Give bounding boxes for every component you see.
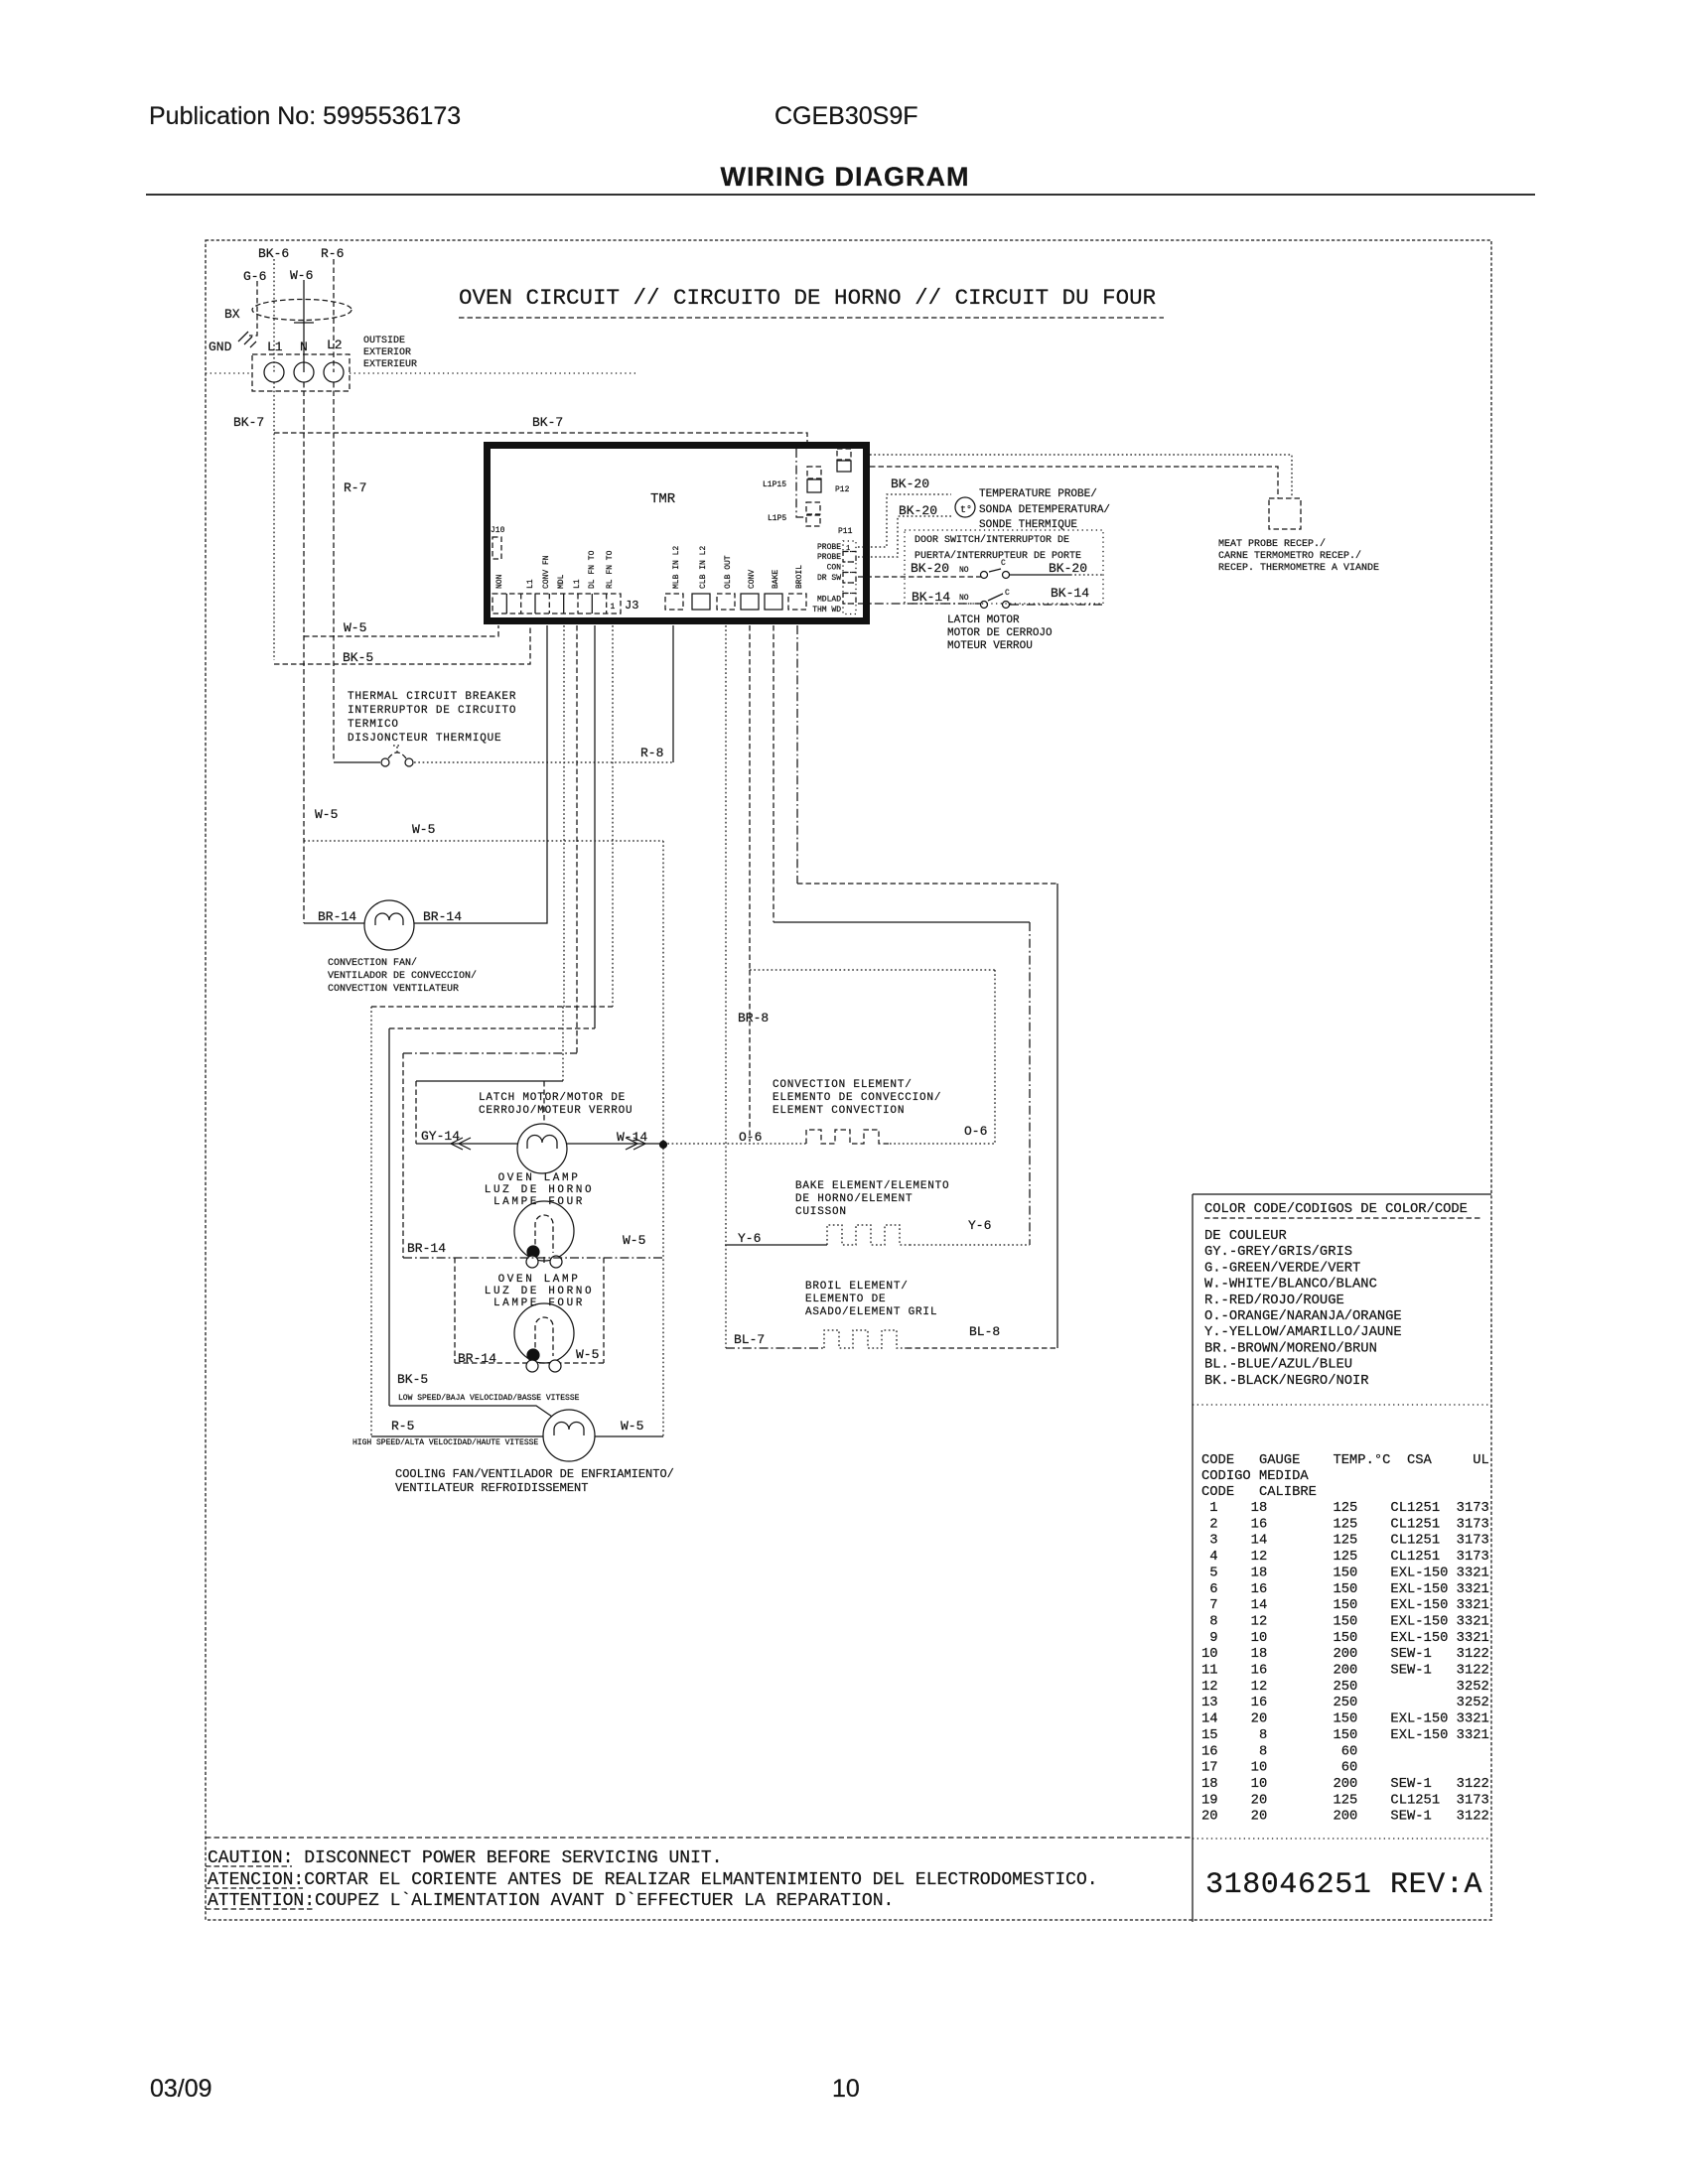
svg-text:BK-5: BK-5	[343, 650, 373, 665]
svg-text:4 12 125 CL1251: 4 12 125 CL1251 3173	[1201, 1550, 1489, 1565]
svg-text:ATTENTION:COUPEZ L`ALIMENTATIO: ATTENTION:COUPEZ L`ALIMENTATION AVANT D`…	[208, 1891, 894, 1911]
svg-text:BK-20: BK-20	[1049, 561, 1087, 576]
svg-text:THERMAL CIRCUIT BREAKER: THERMAL CIRCUIT BREAKER	[348, 691, 516, 703]
svg-text:N: N	[300, 340, 308, 354]
wire R-8 breaker to MLB	[414, 761, 673, 763]
svg-text:BK-7: BK-7	[532, 415, 563, 430]
wire x406 drop to oven lamp	[402, 1053, 404, 1258]
TMR control board box	[488, 446, 867, 621]
J3 divider 1	[505, 594, 507, 614]
convection fan motor	[364, 900, 414, 950]
wire P12 pin1 to meat probe recep	[870, 455, 1292, 498]
caution underlines	[206, 1866, 315, 1909]
svg-text:10 18 200 SEW-1: 10 18 200 SEW-1 3122	[1201, 1647, 1489, 1662]
svg-text:BAKE: BAKE	[772, 570, 780, 589]
svg-text:O-6: O-6	[964, 1124, 987, 1139]
svg-text:BR-8: BR-8	[738, 1011, 769, 1025]
J3 divider 3	[534, 594, 536, 614]
svg-text:COOLING FAN/VENTILADOR DE ENFR: COOLING FAN/VENTILADOR DE ENFRIAMIENTO/	[395, 1467, 674, 1481]
svg-text:OVEN CIRCUIT // CIRCUITO DE HO: OVEN CIRCUIT // CIRCUITO DE HORNO // CIR…	[459, 285, 1156, 311]
svg-text:BL-7: BL-7	[734, 1332, 765, 1347]
svg-text:ATENCION:CORTAR EL CORIENTE AN: ATENCION:CORTAR EL CORIENTE ANTES DE REA…	[208, 1870, 1098, 1890]
wire cooling fan right	[595, 1435, 663, 1437]
svg-text:THM WD: THM WD	[812, 606, 841, 614]
latch motor	[517, 1124, 567, 1173]
svg-text:Y.-YELLOW/AMARILLO/JAUNE: Y.-YELLOW/AMARILLO/JAUNE	[1204, 1324, 1402, 1340]
svg-text:CGEB30S9F: CGEB30S9F	[774, 102, 918, 130]
cable sheath BX ellipse	[252, 300, 352, 321]
svg-text:BL.-BLUE/AZUL/BLEU: BL.-BLUE/AZUL/BLEU	[1204, 1357, 1352, 1373]
wire pin x617 drop	[612, 625, 614, 1007]
oven lamp 1 terminal dot	[527, 1246, 539, 1258]
svg-text:SONDE THERMIQUE: SONDE THERMIQUE	[979, 519, 1077, 531]
J3 divider 8	[606, 594, 608, 614]
svg-text:RECEP. THERMOMETRE A VIANDE: RECEP. THERMOMETRE A VIANDE	[1218, 563, 1379, 574]
wire L1 BK down	[273, 382, 275, 660]
wire pin x599 drop	[594, 625, 596, 1028]
TMR connector BROIL	[788, 594, 806, 610]
svg-text:W-5: W-5	[621, 1419, 643, 1433]
oven lamp 1	[514, 1201, 574, 1261]
svg-text:MOTEUR VERROU: MOTEUR VERROU	[947, 640, 1033, 652]
svg-text:TERMICO: TERMICO	[348, 719, 399, 731]
svg-text:7 14 150 EXL-150: 7 14 150 EXL-150 3321	[1201, 1598, 1489, 1613]
svg-text:CONV: CONV	[748, 570, 757, 589]
svg-text:17 10 60: 17 10 60	[1201, 1761, 1489, 1776]
svg-text:O.-ORANGE/NARANJA/ORANGE: O.-ORANGE/NARANJA/ORANGE	[1204, 1308, 1402, 1324]
color code box border	[1193, 1194, 1491, 1922]
wire pin x568 drop	[563, 625, 565, 1007]
svg-text:t°: t°	[960, 504, 972, 516]
svg-text:R-5: R-5	[391, 1419, 414, 1433]
svg-text:ELEMENT CONVECTION: ELEMENT CONVECTION	[773, 1105, 905, 1117]
svg-text:18 10 200 SEW-1: 18 10 200 SEW-1 3122	[1201, 1777, 1489, 1792]
broil element	[824, 1330, 907, 1348]
svg-text:G-6: G-6	[243, 269, 266, 284]
J3 divider 7	[591, 594, 593, 614]
wire stub latch motor top	[543, 1081, 545, 1124]
svg-text:SONDA DETEMPERATURA/: SONDA DETEMPERATURA/	[979, 504, 1110, 516]
connector P12	[837, 449, 851, 460]
svg-text:13 16 250: 13 16 250 3252	[1201, 1696, 1489, 1710]
svg-text:CON: CON	[827, 564, 842, 573]
svg-text:9 10 150 EXL-150: 9 10 150 EXL-150 3321	[1201, 1631, 1489, 1646]
wire conv fan right to CONV FN pin	[414, 625, 547, 923]
meat probe receptacle	[1269, 498, 1301, 529]
svg-text:R.-RED/ROJO/ROUGE: R.-RED/ROJO/ROUGE	[1204, 1293, 1344, 1308]
TMR internal bus line	[796, 449, 805, 517]
wire MLB IN L2 drop	[672, 625, 674, 762]
svg-text:CERROJO/MOTEUR VERROU: CERROJO/MOTEUR VERROU	[479, 1105, 633, 1117]
wire bend y1036	[389, 1027, 595, 1029]
terminal block outside exterior	[252, 354, 350, 391]
svg-text:ASADO/ELEMENT GRIL: ASADO/ELEMENT GRIL	[805, 1306, 937, 1318]
TMR connector BAKE	[765, 594, 782, 610]
svg-text:BR-14: BR-14	[407, 1241, 446, 1256]
svg-text:DOOR SWITCH/INTERRUPTOR DE: DOOR SWITCH/INTERRUPTOR DE	[914, 534, 1069, 546]
wire W-5 vertical trunk	[662, 841, 664, 1436]
wire broil element left lead	[726, 1347, 824, 1349]
svg-text:8 12 150 EXL-150: 8 12 150 EXL-150 3321	[1201, 1614, 1489, 1629]
wire G-6 ground drop	[249, 281, 257, 336]
svg-text:VENTILATEUR REFROIDISSEMENT: VENTILATEUR REFROIDISSEMENT	[395, 1481, 588, 1495]
svg-text:C: C	[1005, 589, 1010, 598]
wire DR SW to door switch	[858, 576, 981, 578]
wire W-5 horizontal trunk	[304, 840, 663, 842]
svg-text:W-5: W-5	[412, 822, 435, 837]
svg-text:W-5: W-5	[576, 1347, 599, 1362]
connector L1P15	[807, 467, 821, 478]
oven lamp 1 terminals	[526, 1256, 538, 1268]
TMR connector MLB IN L2	[665, 594, 683, 610]
svg-text:BK-14: BK-14	[1051, 586, 1089, 601]
svg-text:COLOR CODE/CODIGOS DE COLOR/CO: COLOR CODE/CODIGOS DE COLOR/CODE	[1204, 1201, 1468, 1217]
wire pin x581 drop	[576, 625, 578, 1053]
thermal breaker contacts	[334, 761, 380, 763]
svg-text:BX: BX	[224, 307, 240, 322]
svg-text:G.-GREEN/VERDE/VERT: G.-GREEN/VERDE/VERT	[1204, 1260, 1360, 1276]
svg-text:WIRING DIAGRAM: WIRING DIAGRAM	[721, 162, 970, 192]
wire broil element right lead	[907, 1347, 1057, 1349]
svg-text:BL-8: BL-8	[969, 1324, 1000, 1339]
svg-text:L1: L1	[267, 340, 283, 354]
ground symbol	[238, 332, 256, 347]
svg-text:MEAT PROBE RECEP./: MEAT PROBE RECEP./	[1218, 538, 1326, 550]
svg-text:BROIL: BROIL	[795, 565, 804, 589]
svg-text:CAUTION: DISCONNECT POWER BEFO: CAUTION: DISCONNECT POWER BEFORE SERVICI…	[208, 1848, 722, 1868]
svg-text:MDL: MDL	[557, 574, 566, 589]
svg-text:LATCH MOTOR: LATCH MOTOR	[947, 614, 1020, 626]
J3 divider 6	[577, 594, 579, 614]
wire x567 link	[562, 1007, 564, 1081]
svg-text:W-5: W-5	[344, 620, 366, 635]
TMR connector CONV	[741, 594, 759, 610]
wire bend y1061	[403, 1052, 577, 1054]
svg-text:BR.-BROWN/MORENO/BRUN: BR.-BROWN/MORENO/BRUN	[1204, 1340, 1377, 1356]
oven lamp 2 terminals	[526, 1360, 538, 1372]
wire x374 drop to cooling fan high	[370, 1007, 372, 1436]
svg-text:RL FN TO: RL FN TO	[606, 550, 615, 589]
svg-text:BR-14: BR-14	[423, 909, 462, 924]
caution strip top edge	[206, 1837, 1193, 1839]
svg-text:15 8 150 EXL-150: 15 8 150 EXL-150 3321	[1201, 1728, 1489, 1743]
wire bend y1014	[371, 1006, 613, 1008]
connector L1P5	[806, 502, 820, 514]
svg-text:10: 10	[832, 2075, 860, 2103]
wire conv fan left	[304, 922, 364, 924]
connector P11 pin column	[843, 541, 856, 552]
wire bend y1089	[416, 1080, 563, 1082]
junction W-14 node	[660, 1142, 667, 1149]
svg-text:BROIL ELEMENT/: BROIL ELEMENT/	[805, 1281, 909, 1293]
cooling fan motor	[543, 1410, 595, 1461]
header rule	[146, 194, 1535, 196]
svg-text:CODE CALIBRE: CODE CALIBRE	[1201, 1485, 1317, 1500]
color code title underline	[1204, 1217, 1482, 1219]
svg-text:R-7: R-7	[344, 480, 366, 495]
wire high speed	[371, 1435, 543, 1437]
svg-text:L2: L2	[327, 338, 343, 352]
svg-text:MLB IN L2: MLB IN L2	[672, 546, 681, 589]
svg-text:PROBE: PROBE	[817, 543, 841, 552]
gnd dotted line right	[350, 372, 635, 374]
wire BK-7 to TMR	[274, 433, 807, 442]
latch motor switch contacts	[981, 602, 988, 609]
svg-text:TEMPERATURE PROBE/: TEMPERATURE PROBE/	[979, 488, 1097, 500]
svg-text:J3: J3	[625, 599, 638, 613]
wire P12 pin2 to meat probe recep	[870, 467, 1278, 498]
svg-text:BK.-BLACK/NEGRO/NOIR: BK.-BLACK/NEGRO/NOIR	[1204, 1373, 1369, 1389]
terminal L1 circle	[264, 362, 284, 382]
svg-text:20 20 200 SEW-1: 20 20 200 SEW-1 3122	[1201, 1810, 1489, 1825]
svg-text:BK-20: BK-20	[891, 477, 929, 491]
svg-text:OVEN LAMP: OVEN LAMP	[498, 1274, 581, 1286]
svg-text:OUTSIDE: OUTSIDE	[363, 336, 405, 346]
svg-text:BK-6: BK-6	[258, 246, 289, 261]
wire R-6 L2 drop	[333, 259, 335, 372]
connector J10	[492, 537, 501, 559]
svg-text:OLB OUT: OLB OUT	[724, 555, 733, 589]
svg-text:19 20 125 CL1251: 19 20 125 CL1251 3173	[1201, 1793, 1489, 1808]
svg-text:P12: P12	[835, 485, 850, 494]
svg-text:12 12 250: 12 12 250 3252	[1201, 1680, 1489, 1695]
wire probe pin1	[858, 494, 951, 547]
svg-text:DL FN TO: DL FN TO	[588, 550, 597, 589]
svg-text:BR-14: BR-14	[458, 1351, 496, 1366]
color code separator 2	[1193, 1838, 1491, 1840]
diagram outer dashed frame	[206, 240, 1491, 1920]
svg-text:11 16 200 SEW-1: 11 16 200 SEW-1 3122	[1201, 1664, 1489, 1679]
J3 divider 5	[563, 594, 565, 614]
svg-text:GY.-GREY/GRIS/GRIS: GY.-GREY/GRIS/GRIS	[1204, 1244, 1352, 1260]
svg-text:J10: J10	[491, 526, 505, 535]
wire GY-14 arrow	[416, 1143, 517, 1145]
svg-text:NO: NO	[959, 566, 969, 575]
svg-text:Publication No: 5995536173: Publication No: 5995536173	[149, 102, 461, 130]
svg-text:OVEN LAMP: OVEN LAMP	[498, 1172, 581, 1184]
TMR connector OLB OUT	[717, 594, 735, 610]
wire THM WD to latch switch	[858, 603, 981, 605]
svg-text:BK-20: BK-20	[899, 503, 937, 518]
svg-text:1 18 125 CL1251: 1 18 125 CL1251 3173	[1201, 1501, 1489, 1516]
wire bake element left lead	[725, 1244, 827, 1246]
wire convection element right lead	[890, 1143, 995, 1145]
svg-text:03/09: 03/09	[150, 2075, 212, 2103]
svg-text:NO: NO	[959, 594, 969, 603]
oven lamp 2	[514, 1303, 574, 1363]
convection element	[806, 1130, 890, 1144]
svg-text:EXTERIOR: EXTERIOR	[363, 347, 411, 358]
wire door switch to box edge	[1010, 574, 1070, 576]
svg-text:CLB IN L2: CLB IN L2	[699, 546, 708, 589]
wire L2 R down	[333, 382, 335, 761]
wire bake element right lead	[910, 1244, 1030, 1246]
svg-text:DR SW: DR SW	[817, 574, 841, 583]
svg-text:PROBE: PROBE	[817, 553, 841, 562]
svg-text:CONVECTION VENTILATEUR: CONVECTION VENTILATEUR	[328, 984, 459, 995]
svg-text:INTERRUPTOR DE CIRCUITO: INTERRUPTOR DE CIRCUITO	[348, 705, 516, 717]
wire probe pin2	[858, 516, 951, 557]
svg-text:BAKE ELEMENT/ELEMENTO: BAKE ELEMENT/ELEMENTO	[795, 1180, 949, 1192]
svg-text:W.-WHITE/BLANCO/BLANC: W.-WHITE/BLANCO/BLANC	[1204, 1277, 1377, 1293]
svg-text:LATCH MOTOR/MOTOR DE: LATCH MOTOR/MOTOR DE	[479, 1092, 626, 1104]
J3 divider 2	[520, 594, 522, 614]
J3 divider 4	[548, 594, 550, 614]
door switch contacts	[981, 572, 988, 579]
wire lamp2 row y1373	[455, 1362, 604, 1364]
wire x392 drop to cooling fan low	[388, 1028, 390, 1406]
terminal L2 circle	[324, 362, 344, 382]
svg-text:2 16 125 CL1251: 2 16 125 CL1251 3173	[1201, 1517, 1489, 1532]
wire low speed	[389, 1406, 552, 1417]
svg-text:CARNE TERMOMETRO RECEP./: CARNE TERMOMETRO RECEP./	[1218, 550, 1361, 562]
svg-text:ELEMENTO DE: ELEMENTO DE	[805, 1294, 886, 1305]
svg-text:BR-14: BR-14	[318, 909, 356, 924]
wire N tick below ellipse	[294, 322, 314, 324]
svg-text:HIGH SPEED/ALTA VELOCIDAD/HAUT: HIGH SPEED/ALTA VELOCIDAD/HAUTE VITESSE	[352, 1438, 538, 1447]
svg-text:CONVECTION ELEMENT/: CONVECTION ELEMENT/	[773, 1079, 913, 1091]
svg-text:MOTOR DE CERROJO: MOTOR DE CERROJO	[947, 627, 1053, 639]
svg-text:NON: NON	[495, 574, 504, 589]
svg-text:BK-7: BK-7	[233, 415, 264, 430]
svg-text:O-6: O-6	[739, 1130, 762, 1145]
svg-text:L1: L1	[526, 579, 535, 589]
wire BK-5 L1 to J3 pin L1	[274, 625, 530, 664]
svg-text:1: 1	[611, 603, 616, 612]
wire W-14 arrow	[567, 1143, 663, 1145]
connector J3 row	[492, 594, 621, 614]
svg-text:318046251 REV:A: 318046251 REV:A	[1205, 1868, 1482, 1902]
color code separator 1	[1193, 1404, 1491, 1406]
svg-text:Y-6: Y-6	[738, 1231, 761, 1246]
svg-text:L1: L1	[573, 579, 582, 589]
svg-text:DISJONCTEUR THERMIQUE: DISJONCTEUR THERMIQUE	[348, 733, 501, 745]
svg-text:TMR: TMR	[650, 491, 676, 507]
oven lamp 2 box right	[603, 1258, 605, 1363]
svg-text:CODE GAUGE TEMP.°C CSA: CODE GAUGE TEMP.°C CSA UL	[1201, 1453, 1489, 1468]
svg-text:16 8 60: 16 8 60	[1201, 1744, 1489, 1759]
svg-text:W-6: W-6	[290, 268, 313, 283]
svg-text:DE HORNO/ELEMENT: DE HORNO/ELEMENT	[795, 1193, 913, 1205]
oven circuit title underline	[459, 317, 1164, 319]
svg-text:VENTILADOR DE CONVECCION/: VENTILADOR DE CONVECCION/	[328, 970, 477, 982]
oven lamp 2 box left	[454, 1258, 456, 1363]
wire lamp row y1267	[403, 1257, 663, 1259]
svg-text:DE COULEUR: DE COULEUR	[1204, 1229, 1287, 1244]
svg-text:P11: P11	[838, 527, 853, 536]
svg-text:LUZ DE HORNO: LUZ DE HORNO	[485, 1184, 594, 1196]
wire CONV elbow	[749, 625, 751, 970]
svg-text:Y-6: Y-6	[968, 1218, 991, 1233]
svg-text:5 18 150 EXL-150: 5 18 150 EXL-150 3321	[1201, 1566, 1489, 1580]
svg-text:BK-5: BK-5	[397, 1372, 428, 1387]
svg-text:3 14 125 CL1251: 3 14 125 CL1251 3173	[1201, 1534, 1489, 1549]
svg-text:6 16 150 EXL-150: 6 16 150 EXL-150 3321	[1201, 1582, 1489, 1597]
svg-text:BK-14: BK-14	[912, 590, 950, 605]
svg-text:CONVECTION FAN/: CONVECTION FAN/	[328, 957, 417, 969]
oven lamp 2 terminal dot	[527, 1349, 539, 1361]
svg-text:L1P15: L1P15	[763, 480, 786, 489]
TMR connector CLB IN L2	[692, 594, 710, 610]
svg-text:GND: GND	[209, 340, 232, 354]
wire BAKE elbow	[773, 625, 774, 922]
wire latch switch right	[1010, 604, 1103, 606]
svg-text:EXTERIEUR: EXTERIEUR	[363, 359, 417, 370]
temperature probe sensor t	[955, 497, 975, 517]
wire convection element left lead	[663, 1143, 806, 1145]
svg-text:ELEMENTO DE CONVECCION/: ELEMENTO DE CONVECCION/	[773, 1092, 941, 1104]
svg-text:W-5: W-5	[623, 1233, 645, 1248]
svg-text:LOW SPEED/BAJA VELOCIDAD/BASSE: LOW SPEED/BAJA VELOCIDAD/BASSE VITESSE	[398, 1394, 580, 1403]
terminal N circle	[294, 362, 314, 382]
wire W-5 N to J3 pin NON	[304, 625, 498, 636]
gnd dotted line left	[206, 372, 252, 374]
svg-text:L1P5: L1P5	[768, 514, 786, 523]
wire W-6 N drop	[303, 280, 305, 372]
svg-text:R-8: R-8	[640, 746, 663, 760]
svg-text:LUZ DE HORNO: LUZ DE HORNO	[485, 1286, 594, 1297]
svg-text:MDLAD: MDLAD	[817, 596, 841, 605]
wire BK-6 L1 drop	[273, 259, 275, 372]
svg-text:C: C	[1001, 559, 1006, 568]
svg-text:CUISSON: CUISSON	[795, 1206, 847, 1218]
bake element	[827, 1225, 910, 1245]
svg-text:CONV FN: CONV FN	[542, 555, 551, 589]
svg-text:1: 1	[846, 545, 850, 553]
wire BROIL elbow	[796, 625, 798, 884]
door switch box	[905, 530, 1103, 604]
svg-text:R-6: R-6	[321, 246, 344, 261]
wire OLB OUT drop	[725, 625, 727, 1348]
svg-text:BK-20: BK-20	[911, 561, 949, 576]
svg-text:CODIGO MEDIDA: CODIGO MEDIDA	[1201, 1469, 1309, 1484]
svg-text:14 20 150 EXL-150: 14 20 150 EXL-150 3321	[1201, 1712, 1489, 1727]
svg-text:W-5: W-5	[315, 807, 338, 822]
wire N W down	[303, 382, 305, 923]
wire x419 drop to GY-14	[415, 1081, 417, 1144]
